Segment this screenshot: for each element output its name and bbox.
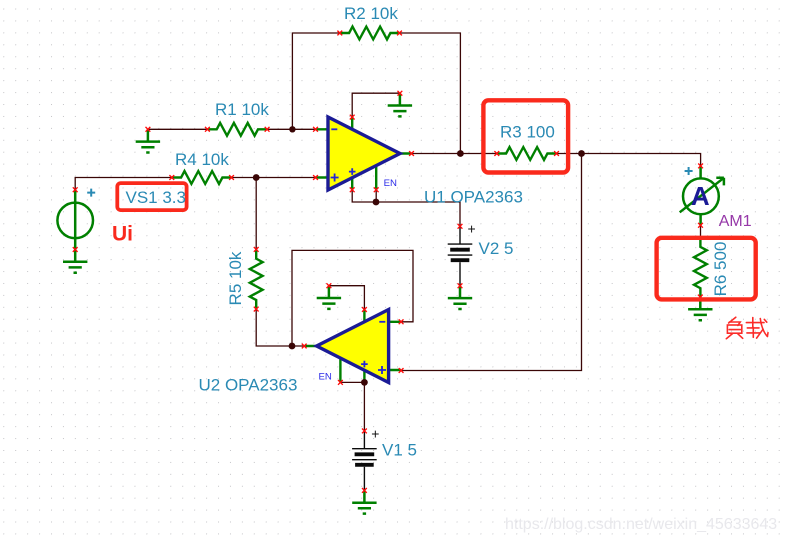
ground above U1 bbox=[388, 93, 412, 116]
wire R1 to U1 inverting input bbox=[267, 128, 315, 130]
wire R4 to U1 non-inverting input bbox=[232, 177, 316, 179]
source Ui VS1 bbox=[57, 190, 93, 250]
svg-text:R4 10k: R4 10k bbox=[175, 150, 229, 169]
svg-text:R2 10k: R2 10k bbox=[344, 4, 398, 23]
red annotation box VS1 bbox=[117, 183, 186, 210]
ground under Ui bbox=[63, 250, 87, 273]
label fuzai (load) bbox=[726, 317, 768, 339]
wire U1 output to R3 bbox=[412, 153, 497, 155]
battery V2 bbox=[448, 226, 473, 285]
wire R2 right to output node bbox=[400, 33, 461, 154]
ground under V1 bbox=[352, 490, 376, 513]
wire U2 feedback loop bbox=[292, 250, 413, 346]
svg-text:R3 100: R3 100 bbox=[500, 123, 555, 142]
plus mark at AM1 bbox=[685, 167, 693, 175]
wire U2 EN to junction bbox=[340, 381, 364, 383]
wire U2 junction to V1 bbox=[363, 382, 365, 431]
resistor R3 bbox=[497, 147, 557, 160]
svg-text:+: + bbox=[371, 425, 379, 441]
wire ground to R1 bbox=[148, 128, 208, 130]
svg-text:V1 5: V1 5 bbox=[382, 441, 417, 460]
wire node down to R5 bbox=[255, 178, 257, 250]
battery V1 bbox=[352, 431, 377, 491]
resistor R1 bbox=[207, 123, 267, 136]
svg-text:+: + bbox=[468, 221, 476, 237]
ground under R6 bbox=[688, 297, 712, 320]
svg-text:U1 OPA2363: U1 OPA2363 bbox=[424, 188, 523, 207]
ground at U2 supply bbox=[317, 286, 341, 309]
wire ammeter to R6 bbox=[700, 225, 702, 237]
wire U1 V- to V2 bbox=[352, 190, 460, 227]
junction dots bbox=[253, 126, 585, 386]
wire R3 to ammeter bbox=[557, 154, 701, 166]
wire node to R2 left (feedback up) bbox=[292, 33, 339, 129]
op-amp U2 bbox=[305, 310, 401, 383]
svg-text:AM1: AM1 bbox=[719, 213, 752, 230]
svg-text:R1 10k: R1 10k bbox=[215, 100, 269, 119]
ground under V2 bbox=[448, 286, 472, 309]
svg-text:R6 500: R6 500 bbox=[711, 242, 730, 297]
ammeter AM1 bbox=[680, 166, 724, 225]
svg-text:Ui: Ui bbox=[112, 223, 133, 246]
red annotation box R3 bbox=[483, 100, 568, 172]
resistor R5 bbox=[250, 249, 263, 309]
svg-text:U2 OPA2363: U2 OPA2363 bbox=[199, 376, 298, 395]
svg-text:EN: EN bbox=[384, 178, 397, 189]
svg-text:R5 10k: R5 10k bbox=[226, 251, 245, 305]
svg-text:EN: EN bbox=[319, 371, 332, 382]
op-amp U1 bbox=[316, 117, 412, 190]
svg-text:VS1 3.3: VS1 3.3 bbox=[126, 188, 187, 207]
resistor R4 bbox=[172, 171, 232, 184]
plus mark at VS1 bbox=[87, 189, 95, 197]
svg-text:A: A bbox=[691, 181, 710, 211]
wire output node down to U2 non-inverting input bbox=[401, 154, 581, 371]
resistor R2 bbox=[340, 27, 400, 40]
svg-text:V2 5: V2 5 bbox=[479, 239, 514, 258]
ground near R1 bbox=[136, 129, 160, 152]
red annotation box R6 bbox=[657, 238, 756, 300]
wire U1 EN drop bbox=[375, 190, 377, 202]
resistor R6 bbox=[694, 238, 707, 298]
wire Ui to R4 bbox=[75, 178, 172, 190]
wire U2 V+ to ground bbox=[329, 286, 365, 310]
svg-text:https://blog.csdn.net/weixin_4: https://blog.csdn.net/weixin_45633643 bbox=[505, 516, 777, 533]
pin marks (red x) bbox=[73, 31, 703, 493]
wire R5 to U2 output node bbox=[256, 309, 304, 346]
wire U1 V+ to ground bbox=[352, 93, 400, 117]
